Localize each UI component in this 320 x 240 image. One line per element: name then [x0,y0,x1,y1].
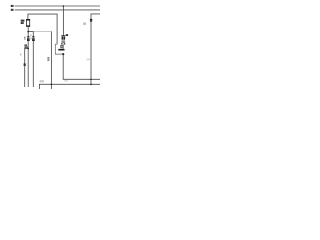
ground bus 31 [39,84,100,89]
connector T on branch wire [24,64,26,66]
relay contact bar [58,49,64,51]
wire V8 from bus 30 [62,6,64,36]
component Y coil cap [61,35,65,36]
junction dot ground V6 [90,84,92,86]
wire Y to contact [62,44,64,49]
junction dot branch [27,48,29,50]
component Y body [62,37,66,40]
label above ground start [40,80,44,82]
label 30 [11,5,14,7]
junction dot ground V3 [51,84,53,86]
label between connectors [30,35,32,37]
label left of V6 top [83,23,86,25]
relay internal label [60,45,63,48]
relay bracket J left [55,44,63,54]
label under wire E [64,80,68,81]
component Y terminals [61,43,62,45]
wire branch left [25,48,29,87]
junction dot bus30/V8 [63,5,65,7]
label left of connectors [24,37,26,38]
junction dot fuse/D [27,31,29,33]
wire fuse down [27,27,29,87]
junction dot wire E / V6 [90,79,92,81]
label above branch [24,44,27,47]
wire D horizontal dark part [28,31,33,33]
fuse S24 [26,19,30,27]
component Y hatch [62,40,66,42]
bus 30 [15,5,100,7]
fuse label [21,20,25,24]
connector T on fuse wire [27,36,30,41]
wire below relay [63,54,100,79]
terminal labels left of V3 [47,57,49,61]
wire D horizontal light part [33,31,51,33]
connector T on V6 wire [90,19,92,22]
wire line C left [28,14,57,44]
label right of component Y [66,34,68,36]
wire line C right [91,14,100,85]
junction dot relay out [62,53,64,55]
label right of V6 mid [87,58,90,60]
connector T on V2 wire [32,36,35,41]
bus 15 [15,9,100,11]
label left of branch [20,54,21,56]
wire V2 [32,32,34,87]
label 15 [11,9,14,11]
wire V3 down [50,32,52,90]
